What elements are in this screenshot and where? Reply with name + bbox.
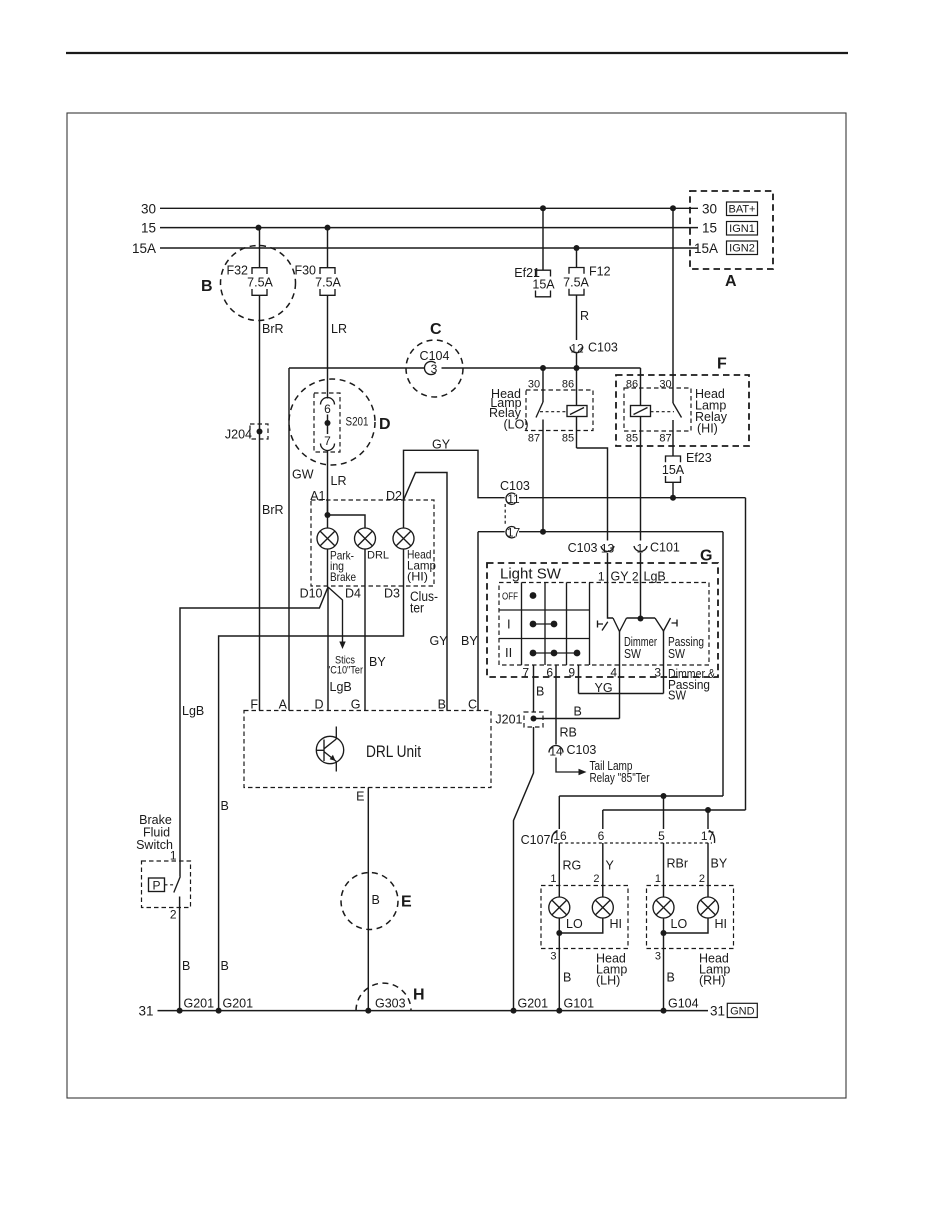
svg-text:3: 3 [655, 951, 661, 963]
svg-text:G104: G104 [668, 997, 699, 1011]
svg-text:RBr: RBr [667, 857, 689, 871]
svg-text:2: 2 [170, 908, 177, 922]
svg-text:9: 9 [568, 666, 575, 680]
svg-text:15A: 15A [532, 278, 555, 292]
bus 15A wire [160, 247, 698, 249]
switch table rails [521, 583, 523, 666]
svg-text:7.5A: 7.5A [563, 276, 589, 290]
svg-text:86: 86 [562, 379, 574, 391]
wire BY to RH HI lamp [707, 843, 709, 897]
bus 30 wire [160, 207, 698, 209]
svg-text:S201: S201 [346, 415, 369, 429]
wire GY branch D2 to DRL unit pin B [404, 473, 448, 711]
dimmer switch arm [613, 618, 627, 632]
junction F30 tap on 15 [325, 225, 331, 231]
svg-text:C: C [468, 698, 477, 712]
svg-text:G101: G101 [564, 997, 595, 1011]
svg-text:Relay "85"Ter: Relay "85"Ter [590, 771, 650, 785]
svg-text:G303: G303 [375, 997, 406, 1011]
wire HI feed right drop to lamp line [745, 498, 747, 810]
ground G104 head lamp RH [661, 1008, 667, 1014]
svg-text:15A: 15A [662, 463, 685, 477]
svg-text:GY: GY [432, 438, 451, 452]
svg-text:B: B [182, 959, 190, 973]
wire C107 pin 6 drop [602, 810, 604, 829]
wire LH lamp commons [559, 918, 603, 933]
wire branch to DRL lamp [328, 515, 366, 528]
connector C103 pin 14 [549, 743, 596, 759]
dimmer-passing link bar [627, 617, 656, 619]
head lamp relay HI group box F [616, 375, 749, 446]
svg-text:F32: F32 [226, 264, 248, 278]
ground G101 head lamp LH [556, 1008, 562, 1014]
svg-text:R: R [580, 309, 589, 323]
fuse F30 [294, 228, 341, 296]
svg-text:F: F [250, 698, 258, 712]
svg-text:B: B [372, 893, 380, 907]
svg-text:SW: SW [668, 689, 686, 703]
svg-text:RG: RG [563, 859, 582, 873]
switch table row dividers [499, 609, 590, 611]
svg-text:(HI): (HI) [697, 422, 718, 436]
wire D4 to DRL unit pin G [364, 587, 366, 711]
junction LO 87 on line 17 [540, 529, 546, 535]
junction F32 tap on 15 [256, 225, 262, 231]
svg-text:C103: C103 [500, 479, 530, 493]
wire RB to tail lamp relay arrow [556, 758, 579, 773]
svg-text:7.5A: 7.5A [247, 276, 273, 290]
svg-text:J201: J201 [495, 713, 522, 727]
svg-text:B: B [563, 971, 571, 985]
svg-text:3: 3 [654, 666, 661, 680]
svg-text:2: 2 [699, 873, 705, 885]
ground G201 brake switch [177, 1008, 183, 1014]
wire parking lamp to D10 [327, 549, 329, 587]
IGN1 terminal box [727, 222, 758, 236]
svg-text:11: 11 [507, 492, 520, 506]
fuse Ef23 [662, 451, 712, 482]
wire C107 pin 5 drop [663, 796, 665, 829]
svg-text:BY: BY [369, 655, 386, 669]
svg-text:F: F [717, 356, 727, 373]
svg-text:SW: SW [668, 647, 685, 661]
head lamp relay LO [489, 368, 593, 448]
svg-text:C103: C103 [567, 743, 597, 757]
connector C107 [521, 829, 715, 847]
pin 7 stub [533, 665, 535, 713]
svg-text:G201: G201 [184, 997, 215, 1011]
junction pin 5 on LO feed [661, 793, 667, 799]
pin 9 stub [578, 665, 580, 694]
wire LO feed right drop to lamp line [722, 532, 724, 796]
fuse F12 [563, 248, 610, 295]
highlight circle E [341, 873, 398, 930]
svg-text:87: 87 [659, 433, 671, 445]
svg-text:LO: LO [566, 917, 583, 931]
ground G303 DRL unit [365, 1008, 371, 1014]
passing switch arm [655, 618, 671, 631]
svg-text:F30: F30 [294, 264, 316, 278]
svg-text:HI: HI [715, 917, 728, 931]
svg-text:17: 17 [507, 526, 521, 540]
svg-text:30: 30 [659, 379, 671, 391]
svg-text:B: B [574, 705, 582, 719]
svg-text:1: 1 [655, 873, 661, 885]
svg-text:2: 2 [632, 570, 639, 584]
svg-text:A: A [279, 698, 288, 712]
splice J204 [225, 424, 268, 442]
lamp head lamp HI indicator [393, 528, 436, 584]
svg-text:LR: LR [331, 474, 347, 488]
svg-text:5: 5 [658, 829, 665, 843]
splice S201 [289, 379, 375, 465]
svg-text:H: H [413, 987, 425, 1004]
svg-text:BAT+: BAT+ [728, 204, 755, 216]
svg-text:86: 86 [626, 379, 638, 391]
svg-text:Y: Y [606, 859, 615, 873]
DRL unit box [244, 711, 491, 788]
wire LgB D10 to DRL unit pin D [327, 587, 329, 711]
svg-text:J204: J204 [225, 428, 252, 442]
junction relay HI tap on 30 [670, 205, 676, 211]
ground G201 light switch [511, 1008, 517, 1014]
junction LO relay 30 [540, 365, 546, 371]
lamp LH HI [592, 897, 622, 931]
wire HI lamp feed line y810 [603, 809, 746, 811]
svg-text:ter: ter [410, 601, 424, 616]
svg-text:SW: SW [624, 647, 641, 661]
svg-text:15A: 15A [694, 241, 718, 256]
svg-text:DRL: DRL [367, 550, 389, 562]
wire LR from S201 to cluster A1 [327, 451, 329, 516]
svg-text:IGN1: IGN1 [729, 223, 755, 235]
svg-text:Brake: Brake [330, 570, 356, 584]
wire GY from D2 up to C103-11 [404, 450, 505, 500]
svg-text:D2: D2 [386, 489, 402, 503]
wire LO lamp feed line y796 [559, 795, 723, 797]
fuse Ef21 [514, 208, 555, 296]
highlight circle B [221, 246, 296, 321]
svg-text:F12: F12 [589, 265, 611, 279]
svg-text:YG: YG [595, 681, 613, 695]
svg-text:LgB: LgB [182, 704, 204, 718]
head lamp LH box [541, 886, 628, 949]
wire LgB to passing contact [640, 553, 642, 618]
svg-text:BY: BY [461, 634, 478, 648]
svg-text:17: 17 [701, 829, 715, 843]
svg-text:15: 15 [702, 221, 717, 236]
svg-text:Switch: Switch [136, 838, 173, 852]
svg-text:Light SW: Light SW [500, 566, 562, 583]
junction LgB on link bar [638, 616, 644, 622]
svg-text:(LH): (LH) [596, 974, 620, 988]
svg-text:(RH): (RH) [699, 974, 725, 988]
svg-text:Ef23: Ef23 [686, 451, 712, 465]
cluster box [311, 500, 434, 586]
svg-text:2: 2 [593, 873, 599, 885]
svg-text:7: 7 [324, 434, 331, 448]
svg-text:(LO): (LO) [504, 418, 529, 432]
highlight circle C [406, 340, 463, 397]
svg-text:LgB: LgB [644, 570, 666, 584]
wire B from J201 down to G201 [514, 727, 534, 1011]
svg-text:7.5A: 7.5A [315, 276, 341, 290]
svg-text:IGN2: IGN2 [729, 243, 755, 255]
svg-text:GY: GY [611, 570, 630, 584]
svg-text:3: 3 [550, 951, 556, 963]
svg-text:1: 1 [598, 570, 605, 584]
connector C104 pin 3 [420, 349, 450, 376]
svg-text:DRL Unit: DRL Unit [366, 742, 421, 761]
junction F12 tap on 15A [574, 245, 580, 251]
svg-text:6: 6 [598, 829, 605, 843]
svg-text:OFF: OFF [502, 592, 518, 603]
brake fluid switch [142, 861, 191, 1011]
schematic border frame [67, 113, 846, 1098]
svg-text:6: 6 [546, 666, 553, 680]
wire line 17 right of connector [519, 531, 723, 533]
wire BrR from F32 to J204 [259, 295, 261, 710]
svg-text:B: B [438, 698, 446, 712]
wire Ef23 output to line 11 junction [672, 482, 674, 497]
svg-text:C101: C101 [650, 541, 680, 555]
IGN2 terminal box [727, 241, 758, 255]
svg-text:LO: LO [671, 917, 688, 931]
svg-text:P: P [152, 878, 160, 892]
junction pin 17 on HI feed [705, 807, 711, 813]
svg-text:G201: G201 [518, 997, 549, 1011]
fuse F32 [226, 228, 273, 296]
svg-text:E: E [401, 894, 412, 911]
svg-text:C104: C104 [420, 349, 450, 363]
wire RG to LH LO lamp [558, 843, 560, 897]
wire relay feed bus y368 right part [442, 367, 641, 369]
dimmer switch contact left [598, 621, 608, 631]
wire BY from line 17 to DRL unit pin C [477, 532, 479, 711]
junction cluster lamp branch [325, 512, 331, 518]
lamp LH LO [549, 897, 583, 931]
wire relay feed bus y368 left part [289, 367, 425, 369]
wire B from pin E to G303 [367, 788, 369, 1011]
wire R from C103-12 to bus junction [576, 354, 578, 369]
transistor Q1 in DRL unit [316, 727, 343, 772]
connector C103 pin 13 [568, 541, 615, 556]
wire arrow stub to Stics C10 terminal [328, 587, 343, 642]
junction Ef21 tap on 30 [540, 205, 546, 211]
splice J201 [495, 712, 543, 727]
svg-text:D3: D3 [384, 587, 400, 601]
wire C107 pin 16 drop [558, 796, 560, 829]
wire D2 lamp lead [403, 500, 405, 528]
pin 6 stub [555, 665, 557, 745]
svg-text:B: B [221, 959, 229, 973]
head lamp relay HI [624, 208, 728, 456]
svg-text:GY: GY [430, 634, 449, 648]
wire R from F12 [576, 295, 578, 340]
svg-text:B: B [536, 685, 544, 699]
highlight half circle H [356, 983, 411, 1010]
svg-text:85: 85 [562, 433, 574, 445]
wire passing common pin 3 to YG [663, 631, 665, 694]
svg-text:BrR: BrR [262, 322, 284, 336]
svg-text:16: 16 [553, 829, 567, 843]
BAT+ terminal box [727, 202, 758, 216]
head lamp RH box [647, 886, 734, 949]
wire RBr to RH LO lamp [663, 843, 665, 897]
svg-text:BY: BY [711, 857, 728, 871]
connector C101 pin 1 [634, 541, 680, 556]
svg-text:4: 4 [610, 666, 617, 680]
wire line 11 HI feed [519, 497, 746, 499]
svg-text:GND: GND [730, 1005, 755, 1017]
light switch group box G [487, 563, 718, 677]
wire LO relay 87 down to line 17 junction [542, 420, 544, 533]
svg-text:RB: RB [560, 726, 577, 740]
wire DRL lamp to D4 [364, 549, 366, 587]
wire line 17 LO feed left of connector to BY drop [478, 531, 505, 533]
lamp RH HI [698, 897, 728, 931]
svg-text:(HI): (HI) [407, 570, 428, 584]
svg-text:30: 30 [141, 202, 156, 217]
svg-text:15: 15 [141, 221, 156, 236]
ground bus 31 [158, 1010, 709, 1012]
svg-text:3: 3 [431, 362, 438, 376]
svg-text:LgB: LgB [330, 680, 352, 694]
svg-text:30: 30 [528, 379, 540, 391]
svg-text:D: D [379, 416, 391, 433]
svg-text:I: I [507, 617, 511, 632]
svg-text:C: C [430, 321, 442, 338]
lamp DRL indicator [355, 528, 390, 562]
wire LR from F30 to S201 [327, 295, 329, 398]
svg-text:7: 7 [522, 666, 529, 680]
svg-text:31: 31 [710, 1003, 725, 1018]
bus 15 wire [160, 227, 698, 229]
svg-text:6: 6 [324, 402, 331, 416]
svg-text:85: 85 [626, 433, 638, 445]
connector C103 pin 12 [570, 341, 618, 356]
ground G201 cluster [216, 1008, 222, 1014]
svg-text:C103: C103 [588, 341, 618, 355]
svg-text:HI: HI [610, 917, 623, 931]
svg-text:1: 1 [550, 873, 556, 885]
junction LO relay 86 [574, 365, 580, 371]
light switch inner box [499, 583, 709, 666]
svg-text:E: E [356, 790, 364, 804]
junction Ef23 output on line 11 [670, 495, 676, 501]
wire C107 pin 17 drop [707, 810, 709, 829]
page top rule [66, 52, 848, 54]
svg-text:A1: A1 [310, 489, 325, 503]
svg-text:12: 12 [570, 342, 584, 356]
wire GY to dimmer contact [608, 553, 614, 618]
svg-text:B: B [667, 971, 675, 985]
svg-text:D4: D4 [345, 587, 361, 601]
svg-text:31: 31 [138, 1003, 153, 1018]
wire D3 down and left to ground rail [219, 587, 404, 1011]
svg-text:"C10"Ter: "C10"Ter [327, 665, 363, 677]
svg-text:G: G [700, 548, 712, 565]
passing switch contact right [672, 620, 678, 627]
wire A1 into cluster [327, 500, 329, 528]
wire HI lamp to D3 [403, 549, 405, 587]
svg-text:G201: G201 [223, 997, 254, 1011]
connector C103 pins 11 and 17 [500, 479, 530, 540]
svg-text:15A: 15A [132, 241, 156, 256]
svg-text:C107: C107 [521, 833, 551, 847]
svg-text:GW: GW [292, 468, 314, 482]
svg-text:B: B [201, 278, 213, 295]
svg-text:BrR: BrR [262, 503, 284, 517]
wire GW from C104 bus corner down to DRL pin A [288, 368, 290, 711]
svg-text:G: G [351, 698, 361, 712]
svg-text:14: 14 [549, 745, 563, 759]
svg-text:A: A [725, 273, 737, 290]
wire LO relay 85 to C103-13 drop [577, 448, 608, 541]
wire B from dimmer pin 4 to J201 [534, 718, 620, 720]
lamp parking brake [317, 528, 356, 584]
wire HI relay 85 down to C101-1 [640, 417, 642, 541]
svg-text:D: D [314, 698, 323, 712]
svg-text:30: 30 [702, 202, 717, 217]
wire RH lamp commons [664, 918, 709, 933]
svg-text:87: 87 [528, 433, 540, 445]
lamp RH LO [653, 897, 687, 931]
svg-text:B: B [221, 799, 229, 813]
power source block A [690, 191, 773, 269]
svg-text:D10: D10 [300, 587, 323, 601]
svg-text:II: II [505, 645, 512, 660]
svg-text:LR: LR [331, 322, 347, 336]
wire dimmer common pin 4 to B line [619, 632, 621, 719]
svg-text:C103: C103 [568, 541, 598, 555]
wire YG linking pin 9 and pin 3 [579, 693, 664, 695]
wire Y to LH HI lamp [602, 843, 604, 897]
wire D10 diagonal to brake switch path [180, 587, 328, 877]
